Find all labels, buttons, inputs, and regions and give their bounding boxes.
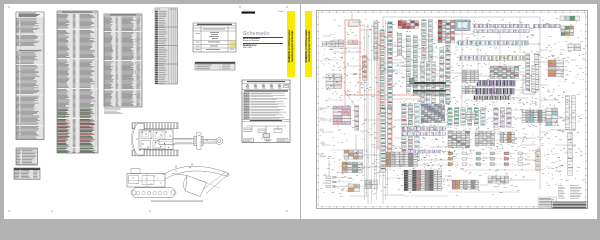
schematic title block: [243, 31, 283, 49]
footnotes under T3: [104, 108, 123, 114]
small connectors SC1: [326, 176, 352, 188]
mid cluster MC1: [365, 180, 378, 189]
cell columns CC1: [402, 104, 419, 161]
salmon fuse column CB1: [362, 56, 367, 81]
stack group SG1: [404, 170, 442, 191]
pink grid PG1: [333, 106, 351, 125]
plan view body: [131, 124, 174, 156]
right column RC1: [536, 150, 540, 171]
center long verticals: [462, 17, 520, 110]
purple bus PB1: [474, 24, 530, 33]
connector count table: [195, 62, 235, 70]
small grid SB1: [561, 26, 574, 36]
grey group GG1: [386, 152, 418, 167]
monitor block MB1: [455, 20, 470, 31]
terminal strip comb TS1: [410, 78, 451, 96]
right edge cells REC1: [546, 85, 575, 184]
extra mid fill clusters: [346, 20, 580, 156]
page number: [279, 11, 287, 13]
grey stack GS1: [355, 106, 359, 131]
harness and wire identification table: [193, 23, 236, 52]
dense cluster DC1: [421, 104, 445, 123]
abbreviation table TA: [16, 148, 38, 165]
teal columns TCC1: [448, 108, 485, 126]
striped connector rows LB1: [474, 76, 535, 100]
bottom cluster BC1: [452, 176, 509, 189]
striped bar HB2: [460, 56, 529, 61]
harness bundle verticals: [318, 20, 470, 200]
legend table T3: [104, 14, 142, 107]
ruler ticks left: [317, 17, 320, 204]
tall bar TB2: [388, 108, 392, 154]
ruler ticks right: [585, 17, 588, 204]
aux extra wires: [318, 17, 582, 200]
left border connectors: [318, 108, 334, 157]
fuse bar F1: [397, 33, 402, 56]
tan cluster TC1: [344, 150, 363, 159]
small boxes TL: [321, 20, 359, 59]
plan view boom: [173, 133, 223, 150]
purple rows PR1: [403, 127, 446, 136]
yellow side banner left page: [287, 11, 294, 76]
switch bar SP1: [422, 20, 426, 61]
connector bar CB6: [413, 36, 417, 94]
column stacks CS1: [526, 54, 539, 91]
tall bar TB1: [381, 108, 386, 173]
plan view lower track: [132, 150, 178, 156]
relay grid R2: [438, 20, 455, 43]
legend table T1: [16, 12, 44, 140]
connector bar CB5: [406, 36, 410, 94]
small boxes SB3: [348, 184, 360, 192]
label text noise: [320, 19, 585, 197]
box rows BR1: [522, 110, 546, 123]
wire color-code table T4: [155, 8, 178, 84]
schematic border frame: [317, 11, 588, 209]
connector bar CB2: [374, 22, 378, 61]
connector pair rows CPR1: [448, 152, 530, 166]
bars mid BM2: [440, 48, 450, 105]
striped bar HB1: [458, 41, 529, 45]
aux row AUX5: [560, 16, 580, 21]
caption: [151, 200, 203, 203]
aux cells right mid AUX4: [546, 108, 558, 126]
ruler ticks bottom: [322, 206, 585, 209]
aux connector group AUX1: [322, 42, 336, 47]
right page (wiring schematic sheet): [301, 4, 597, 219]
purple bus PB2: [534, 24, 561, 28]
upper mid fill wires: [400, 60, 438, 78]
aux boxes AUX2: [462, 86, 476, 94]
left page (component list sheet): [4, 4, 300, 219]
symbol table TB: [14, 168, 40, 179]
columns CC2: [494, 108, 511, 128]
vertical cell column VC1: [446, 24, 450, 103]
dark pin labels: [321, 20, 582, 194]
connector bar CB3: [380, 30, 384, 113]
main harness frame lines: [322, 17, 540, 204]
purple row above GG1: [404, 150, 441, 153]
switch bar SP2: [428, 20, 432, 61]
relay block R1: [398, 21, 419, 29]
salmon harness path: [345, 14, 450, 150]
legend table T2: [57, 11, 98, 153]
fuse link boxes inside loop: [348, 22, 358, 45]
yellow side banner right page: [305, 11, 312, 76]
grey blocks GB1: [462, 70, 479, 83]
aux column AUX3: [532, 66, 536, 93]
side view excavator: [127, 164, 229, 198]
colored rows CR1: [342, 162, 363, 173]
grey groups GG2: [448, 131, 515, 148]
box stacks BS1: [490, 66, 519, 79]
revision text columns: [558, 186, 582, 199]
sheet title block strip: [538, 197, 587, 208]
ruler ticks top: [322, 11, 585, 14]
plan view upper track: [132, 123, 178, 129]
tan pairs TP1: [548, 60, 564, 77]
bars mid BM1: [421, 62, 436, 106]
small connector cluster CL1: [326, 74, 342, 89]
connector bar CB4: [388, 22, 393, 113]
interconnect wires: [322, 20, 576, 185]
right sparse SB2: [558, 42, 585, 82]
